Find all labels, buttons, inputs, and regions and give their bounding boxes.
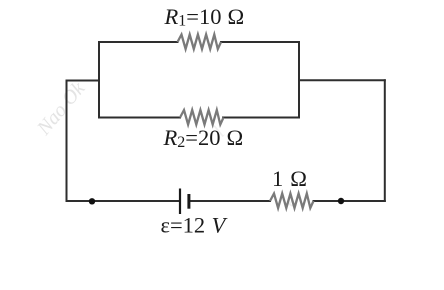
svg-text:1Ω: 1Ω [272, 166, 307, 191]
svg-text:R2=20Ω: R2=20Ω [163, 125, 244, 151]
svg-text:R1=10Ω: R1=10Ω [164, 4, 245, 30]
svg-text:Nao Ok: Nao Ok [32, 77, 90, 140]
svg-text:ε=12V: ε=12V [161, 213, 228, 238]
